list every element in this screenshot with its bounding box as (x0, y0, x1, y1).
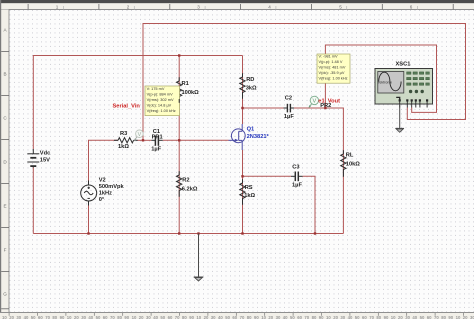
svg-text:80: 80 (182, 315, 187, 319)
svg-text:30: 30 (146, 315, 151, 319)
svg-text:80: 80 (376, 315, 381, 319)
svg-text:30: 30 (81, 315, 86, 319)
svg-text:V: V (313, 99, 317, 105)
wire R3 to Vin node (138, 139, 152, 141)
svg-text:20: 20 (74, 315, 79, 319)
svg-text:3kΩ: 3kΩ (246, 85, 257, 91)
wire drain node to Q1 / source to RS (242, 150, 244, 234)
svg-text:XSC1: XSC1 (396, 62, 411, 68)
svg-text:30: 30 (276, 315, 281, 319)
svg-text:V(dc): -35.9 µV: V(dc): -35.9 µV (319, 71, 345, 75)
junction RS bottom on ground rail (241, 232, 243, 234)
wire R1 branch (178, 56, 180, 141)
svg-text:30: 30 (211, 315, 216, 319)
svg-text:30: 30 (340, 315, 345, 319)
svg-text:70: 70 (369, 315, 374, 319)
resistor R3 (horizontal) (114, 138, 138, 143)
svg-text:60: 60 (427, 315, 432, 319)
svg-text:PR1: PR1 (152, 134, 163, 140)
wire V2 top stem (89, 140, 119, 180)
svg-text:10: 10 (132, 315, 137, 319)
svg-text:1: 1 (56, 5, 59, 10)
svg-text:20: 20 (204, 315, 209, 319)
svg-text:RS: RS (245, 185, 253, 191)
svg-text:50: 50 (225, 315, 230, 319)
svg-text:30: 30 (16, 315, 21, 319)
ground (main, bottom rail) (194, 234, 204, 278)
svg-text:30: 30 (405, 315, 410, 319)
svg-text:0°: 0° (99, 197, 105, 203)
svg-text:30: 30 (470, 315, 474, 319)
svg-text:1kΩ: 1kΩ (244, 193, 255, 199)
svg-text:50: 50 (355, 315, 360, 319)
battery Vdc (27, 149, 39, 168)
wire battery bottom to ground rail (32, 168, 34, 234)
junction V2 minus on ground rail (87, 232, 89, 234)
wire R2 branch (178, 140, 180, 233)
resistor RD (vertical) (240, 77, 245, 95)
resistor R1 (vertical) (177, 81, 182, 99)
svg-text:60: 60 (362, 315, 367, 319)
svg-text:70: 70 (434, 315, 439, 319)
svg-text:100kΩ: 100kΩ (182, 90, 200, 96)
svg-text:80: 80 (441, 315, 446, 319)
svg-text:70: 70 (240, 315, 245, 319)
svg-text:V(p-p): 1.48 V: V(p-p): 1.48 V (319, 60, 343, 64)
junction node Serial_Vin (R3/C1/probe PR1/scope ch2 wire) (142, 139, 144, 141)
junction R1 top on VDD rail (178, 54, 180, 56)
bottom ruler strip (0, 313, 474, 319)
svg-text:50: 50 (290, 315, 295, 319)
svg-text:50: 50 (420, 315, 425, 319)
svg-text:40: 40 (218, 315, 223, 319)
svg-text:C2: C2 (285, 96, 292, 102)
svg-text:R3: R3 (120, 131, 127, 137)
svg-text:80: 80 (52, 315, 57, 319)
wire RD branch (242, 56, 244, 125)
svg-text:60: 60 (168, 315, 173, 319)
capacitor C2 (284, 104, 295, 113)
svg-text:V(freq): 1.00 kHz: V(freq): 1.00 kHz (147, 109, 176, 113)
wire top rail VDD (33, 56, 242, 150)
svg-text:50: 50 (160, 315, 165, 319)
wire Vin node to C1 / C1 to gate (163, 139, 229, 141)
svg-text:60: 60 (103, 315, 108, 319)
top chrome bar (0, 0, 474, 3)
svg-text:Q1: Q1 (247, 127, 255, 133)
svg-text:20: 20 (268, 315, 273, 319)
wire Vin node up over to scope ch2 (143, 24, 466, 141)
ground (scope) (395, 104, 404, 128)
svg-text:60: 60 (38, 315, 43, 319)
svg-text:1µF: 1µF (284, 114, 294, 120)
svg-text:20: 20 (139, 315, 144, 319)
terminals (399, 99, 429, 101)
junction drain node (RD/C2/Q1 drain) (241, 107, 243, 109)
svg-text:90: 90 (189, 315, 194, 319)
svg-text:500mVpk: 500mVpk (99, 184, 125, 190)
AC source V2 (81, 181, 97, 206)
svg-text:V(freq): 1.00 kHz: V(freq): 1.00 kHz (319, 77, 348, 81)
oscilloscope XSC1 (375, 62, 433, 108)
svg-text:4: 4 (268, 5, 271, 10)
wire Vout up over to scope ch1 (325, 45, 436, 112)
svg-text:50: 50 (31, 315, 36, 319)
capacitor C3 (291, 172, 303, 182)
probe PR2 (309, 96, 319, 108)
svg-text:2N3821*: 2N3821* (247, 134, 270, 140)
wire C2 row (243, 107, 284, 109)
svg-text:V: 175 mV: V: 175 mV (147, 87, 165, 91)
svg-text:10: 10 (196, 315, 201, 319)
junction source node (Q1 source/RS/C3) (241, 175, 243, 177)
svg-text:6: 6 (410, 5, 413, 10)
svg-text:1µF: 1µF (151, 147, 161, 153)
svg-text:V(p-p): 884 mV: V(p-p): 884 mV (147, 92, 173, 96)
svg-text:90: 90 (60, 315, 65, 319)
svg-text:90: 90 (448, 315, 453, 319)
svg-text:10kΩ: 10kΩ (346, 162, 360, 168)
svg-text:60: 60 (232, 315, 237, 319)
junction ground symbol on ground rail (197, 232, 199, 234)
svg-text:20: 20 (9, 315, 14, 319)
wire bottom rail (33, 233, 343, 235)
svg-text:80: 80 (312, 315, 317, 319)
svg-text:6.2kΩ: 6.2kΩ (182, 186, 198, 192)
svg-text:10: 10 (2, 315, 7, 319)
svg-text:90: 90 (254, 315, 259, 319)
svg-text:F: F (4, 248, 7, 253)
svg-text:V: -981 mV: V: -981 mV (319, 55, 339, 59)
svg-text:15V: 15V (40, 158, 50, 164)
resistor R2 (vertical) (177, 175, 182, 193)
svg-text:R2: R2 (182, 177, 189, 183)
svg-text:V(rms): 481 mV: V(rms): 481 mV (319, 66, 346, 70)
svg-text:PR2: PR2 (320, 103, 331, 109)
junction R2 bottom on ground rail (178, 232, 180, 234)
svg-text:G: G (3, 292, 7, 297)
svg-text:90: 90 (124, 315, 129, 319)
svg-text:40: 40 (348, 315, 353, 319)
svg-text:20: 20 (333, 315, 338, 319)
probe PR1 (134, 130, 143, 141)
svg-text:10: 10 (391, 315, 396, 319)
svg-text:20: 20 (463, 315, 468, 319)
svg-text:80: 80 (117, 315, 122, 319)
svg-text:1µF: 1µF (292, 182, 302, 188)
svg-text:40: 40 (283, 315, 288, 319)
svg-text:V(dc): 14.8 µV: V(dc): 14.8 µV (147, 103, 172, 107)
svg-text:90: 90 (384, 315, 389, 319)
svg-text:V: V (138, 132, 142, 138)
junction gate node (R1/R2/C1-Q1 wire) (178, 139, 180, 141)
svg-text:Tektronix: Tektronix (378, 80, 393, 84)
capacitor C1 (151, 136, 162, 146)
wire C3 row (243, 175, 292, 177)
svg-text:E: E (3, 204, 6, 209)
tooltip yellow box right (PR2 readings) (317, 54, 350, 83)
svg-text:Serial_Vin: Serial_Vin (113, 104, 141, 110)
top ruler strip (0, 3, 474, 9)
svg-text:1kHz: 1kHz (99, 191, 112, 197)
svg-text:10: 10 (456, 315, 461, 319)
svg-text:40: 40 (153, 315, 158, 319)
junction node Vout (C2/RL/probe PR2/scope ch1 wire) (324, 107, 326, 109)
svg-text:70: 70 (45, 315, 50, 319)
transistor Q1 JFET (229, 124, 246, 150)
svg-text:10: 10 (326, 315, 331, 319)
svg-text:B: B (3, 72, 6, 77)
svg-text:60: 60 (297, 315, 302, 319)
svg-text:20: 20 (398, 315, 403, 319)
svg-text:10: 10 (261, 315, 266, 319)
svg-text:40: 40 (88, 315, 93, 319)
svg-text:C3: C3 (292, 165, 299, 171)
svg-text:40: 40 (24, 315, 29, 319)
svg-text:RD: RD (246, 77, 254, 83)
svg-text:R1: R1 (182, 81, 189, 87)
svg-text:5: 5 (339, 5, 342, 10)
svg-text:50: 50 (96, 315, 101, 319)
svg-text:70: 70 (304, 315, 309, 319)
svg-text:70: 70 (175, 315, 180, 319)
svg-text:V(rms): 302 mV: V(rms): 302 mV (147, 98, 174, 102)
svg-text:10: 10 (67, 315, 72, 319)
svg-text:1kΩ: 1kΩ (118, 144, 129, 150)
left ruler strip (0, 0, 9, 319)
svg-text:40: 40 (412, 315, 417, 319)
svg-text:70: 70 (110, 315, 115, 319)
resistor lead stubs (black) (179, 73, 343, 205)
svg-text:Vdc: Vdc (40, 151, 50, 157)
svg-text:3: 3 (197, 5, 200, 10)
wire V2 bottom stem (88, 206, 90, 234)
svg-text:80: 80 (247, 315, 252, 319)
junction C3 bottom on ground rail (314, 232, 316, 234)
svg-text:RL: RL (346, 152, 354, 158)
svg-text:90: 90 (319, 315, 324, 319)
svg-text:2: 2 (127, 5, 130, 10)
resistor RS (vertical) (240, 183, 245, 201)
svg-text:V2: V2 (99, 178, 106, 184)
tooltip yellow box left (PR1 readings) (145, 86, 180, 116)
resistor RL (vertical) (341, 154, 346, 173)
